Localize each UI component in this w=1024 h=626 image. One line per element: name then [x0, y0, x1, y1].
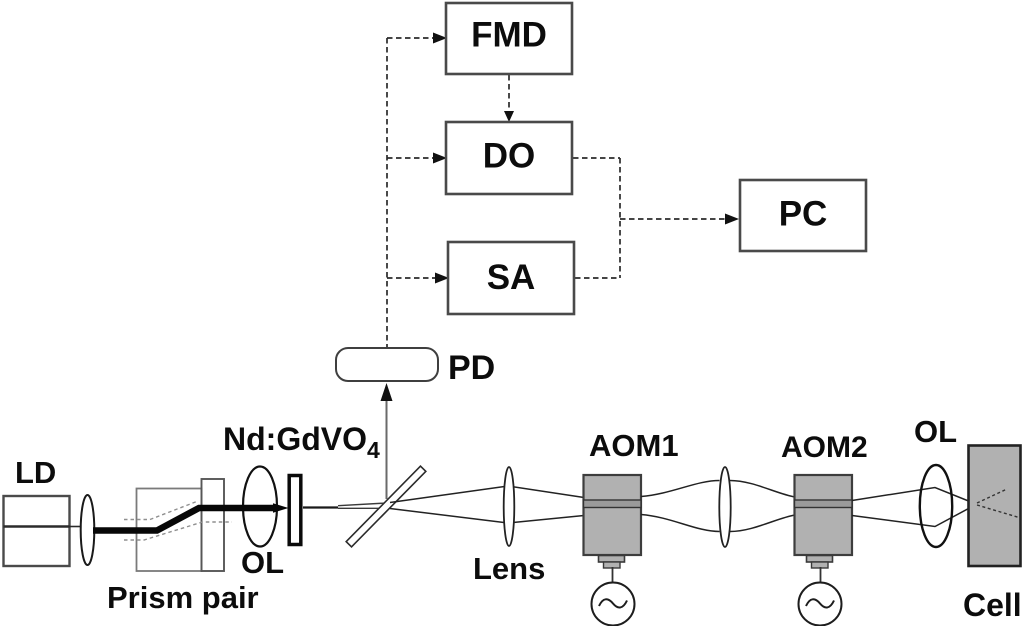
svg-text:OL: OL	[914, 414, 957, 449]
svg-text:Prism pair: Prism pair	[107, 580, 259, 615]
objective lens OL right	[920, 465, 952, 547]
box FMD	[446, 3, 572, 74]
wire: dashed branch into FMD	[387, 37, 434, 39]
laser diode LD	[4, 496, 70, 566]
focus dashed divergence lower	[977, 505, 1019, 518]
signal generator 2	[799, 583, 842, 626]
wire: dashed DO right to bus	[573, 157, 620, 159]
wire: left vertical dashed bus from PD up to FMD level	[386, 38, 388, 348]
svg-text:SA: SA	[487, 258, 536, 297]
svg-text:DO: DO	[483, 137, 536, 176]
wire: dashed arrow into PC	[620, 218, 726, 220]
beam mid lens to AOM2 lower	[730, 515, 795, 532]
beam AOM1 to mid lens lower	[641, 515, 720, 532]
beam splitter to Lens lower	[390, 509, 584, 524]
prism pair large prism	[137, 489, 202, 572]
signal generator 1	[592, 583, 635, 626]
beam mid lens to AOM2 upper	[730, 481, 795, 498]
AOM1 mount pedestal	[599, 556, 625, 563]
sample cell	[969, 446, 1021, 567]
box DO	[446, 122, 572, 194]
collimator lens after LD	[81, 495, 95, 565]
svg-text:PC: PC	[779, 195, 828, 234]
dashed dispersion line upper	[124, 501, 198, 520]
wire: laser output crystal to splitter	[303, 506, 338, 508]
photodiode PD body	[336, 348, 438, 381]
thick pump beam through prism pair	[93, 508, 274, 531]
svg-text:LD: LD	[15, 455, 56, 490]
svg-text:AOM1: AOM1	[589, 428, 679, 463]
box PC	[740, 180, 866, 251]
wire: thin beam LD to collimator lens	[70, 526, 85, 528]
wire: dashed arrow FMD to DO	[508, 75, 510, 110]
relay lens (Lens)	[504, 467, 515, 546]
wire: AOM2 to generator	[820, 567, 822, 583]
svg-text:Lens: Lens	[473, 551, 545, 586]
prism pair narrow prism	[202, 479, 225, 571]
modulator AOM1	[584, 475, 642, 555]
crystal Nd:GdVO4	[289, 476, 301, 545]
dashed dispersion line lower	[124, 522, 232, 540]
focus dashed divergence upper	[977, 490, 1006, 504]
beam band in AOM2	[795, 500, 853, 508]
svg-text:AOM2: AOM2	[781, 431, 868, 464]
wire: solid arrow splitter to PD	[386, 398, 388, 499]
svg-text:PD: PD	[448, 349, 495, 387]
AOM2 mount pedestal	[807, 556, 833, 563]
box SA	[448, 242, 574, 314]
wire: dashed branch into SA	[387, 277, 436, 279]
beam sliver lower edge	[338, 507, 390, 509]
wire: AOM1 to generator	[612, 567, 614, 583]
svg-text:Cell: Cell	[963, 587, 1022, 623]
beam splitter to Lens upper	[390, 486, 584, 503]
beam taper into crystal	[273, 503, 289, 512]
svg-text:OL: OL	[241, 545, 284, 580]
beamsplitter plate	[346, 466, 426, 547]
wire: dashed branch into DO	[387, 157, 434, 159]
beam AOM1 to mid lens upper	[641, 481, 720, 497]
modulator AOM2	[795, 475, 853, 555]
beam band in AOM1	[584, 500, 642, 508]
relay lens between AOMs	[719, 467, 730, 547]
wire: right vertical dashed bus	[619, 158, 621, 278]
beam AOM2 to cell upper	[852, 488, 976, 505]
objective lens OL left	[243, 467, 277, 547]
beam AOM2 to cell lower	[852, 505, 976, 527]
beam sliver crystal to splitter upper edge	[338, 503, 390, 506]
svg-text:FMD: FMD	[471, 16, 547, 55]
wire: dashed SA right to bus	[575, 277, 620, 279]
svg-text:Nd:GdVO4: Nd:GdVO4	[223, 421, 380, 463]
